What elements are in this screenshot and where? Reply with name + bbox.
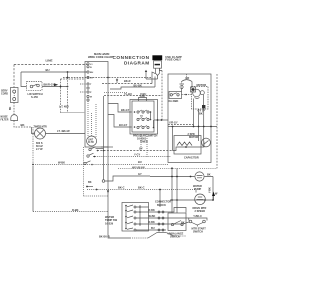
dotted line y189.5 [87,189,196,191]
motor label [197,83,207,87]
wire dotted y212 [33,211,108,213]
svg-text:BU: BU [90,72,94,74]
svg-text:W-BK: W-BK [58,161,65,165]
plug inner dashes [13,93,15,98]
wire LINE dashed y64.5 [14,64,87,66]
junction dot (33,164.5) [32,164,34,166]
wire dashed vertical x14 [13,65,15,88]
svg-text:P: P [90,92,92,94]
pump line jog left [102,180,105,183]
svg-text:GY: GY [138,172,142,176]
wire vertical x67.5 to y77.5 [67,72,69,78]
label BK [21,123,25,127]
wire filter down and right [14,121,32,128]
plug terminal top [13,90,16,93]
inner vertical x103 [103,96,105,180]
box bottom bracket [101,146,113,148]
long line L1 GY y150.5 [97,150,173,152]
wire BK-R y83 [102,83,152,85]
svg-text:BK-C: BK-C [118,186,125,190]
label right of lid switch [44,83,55,87]
riser x172.5 [172,127,174,151]
svg-text:GY: GY [90,78,94,80]
label LT 4BU-W [57,129,70,133]
svg-text:R-BK: R-BK [149,221,155,224]
wires down from motor box [194,99,204,148]
Y/R-GY label [169,122,178,125]
label below motor switch [169,99,179,103]
svg-text:TIMER MTR: TIMER MTR [34,125,48,128]
svg-text:BK-GY: BK-GY [121,108,130,112]
svg-text:FUSE ONLY: FUSE ONLY [165,58,181,62]
label vertical wire [10,106,12,110]
GY labels [198,109,206,116]
riser x160 to dotted line [159,190,161,208]
2 SPD label [188,133,199,139]
dashes switch to motor [182,94,193,96]
wire vertical x67.5 lower [67,78,69,113]
svg-text:BK: BK [199,112,203,116]
fuse F1 element bar [155,64,160,66]
wire y79 to arrow [146,71,158,80]
terminals column x88 [87,63,89,101]
svg-text:T: T [90,84,92,86]
label R-BK on y164.5 [58,161,65,165]
fuse F1 holder box [154,61,162,68]
wire x196 down to motor [195,190,197,193]
svg-text:3A: 3A [140,115,143,118]
wire pump right down [212,177,214,201]
capacitor circle [202,138,211,147]
wire into timer motor [32,127,35,134]
console terminal box [85,62,108,148]
black connector top right [212,192,215,197]
timer motor circle [35,128,46,139]
svg-text:Y-BK-C: Y-BK-C [193,215,202,218]
svg-text:BK-R: BK-R [124,79,131,83]
lid switch terminal R [37,84,40,87]
svg-text:FILTER: FILTER [1,119,9,121]
contact cluster below console box [84,147,109,196]
lint filter text [88,140,94,145]
label left of filter [1,117,9,122]
protector element [177,142,192,146]
long line L4 W/Y-BU/W y169.5 [118,167,217,169]
svg-text:BU: BU [46,68,50,72]
unbalance switch box [168,213,186,231]
motor switch box [169,92,182,99]
power cord plug box [11,88,19,103]
wire vertical x21 [21,72,27,87]
wire Y/R-GY dashed y124.5 [168,124,194,126]
svg-text:YL-BU: YL-BU [124,92,132,96]
svg-text:SWITCH: SWITCH [193,231,203,234]
label above timer motor [34,125,48,128]
label LT 4BU [59,106,69,109]
wire dashed y79 x60-85 [61,78,86,80]
svg-text:NOISE: NOISE [1,117,9,119]
svg-text:GY: GY [139,147,143,151]
row2 W-BK [149,217,189,219]
console switch rows [125,205,148,231]
svg-text:BU-BK: BU-BK [134,83,142,87]
wire long vertical x33 [32,127,34,166]
label BU [46,68,50,72]
pump line right part [150,176,213,178]
timer motor spokes [37,130,44,137]
svg-text:BU: BU [138,160,142,164]
jog to y147 [173,142,205,151]
motor circles [193,89,201,97]
connector arrow A2 [54,83,58,86]
drive motor circle [195,194,206,205]
svg-text:CONNECTION: CONNECTION [113,55,150,60]
svg-text:WIRE CODE CHART: WIRE CODE CHART [88,55,114,59]
svg-text:Y-BK: Y-BK [209,187,212,193]
dashed riser x162 [161,71,163,121]
dotted y238 diagonal and y232.5 [130,237,148,239]
capacitor label [184,157,199,160]
svg-text:BU-GY: BU-GY [119,123,128,127]
timer contacts row2 [137,115,151,121]
wire dashed y77.5 [63,77,152,79]
svg-text:DIAGRAM: DIAGRAM [124,61,150,66]
svg-text:R-BK: R-BK [149,209,155,212]
row3 R-BK lower [149,222,190,224]
timer contacts row3 [134,126,155,129]
svg-text:BK-C: BK-C [138,186,145,190]
label Y-BK vertical [209,187,212,193]
svg-text:LINT: LINT [88,140,94,142]
svg-text:BK-BU-R: BK-BU-R [99,235,110,238]
svg-text:2 SPEED: 2 SPEED [195,210,206,213]
text above unbalance box [155,201,171,207]
label below timer motor [36,142,43,151]
label below timer [133,135,158,144]
svg-text:FLTR: FLTR [88,142,94,144]
svg-text:PUMP: PUMP [194,188,202,191]
wire BU-BK y89 [110,77,155,90]
svg-text:W: W [215,193,218,196]
svg-text:W-BK: W-BK [149,215,156,218]
outer dashed vertical x217 [216,74,218,168]
label left of water temp box [105,215,118,225]
wire jog BU-GY [108,115,132,128]
svg-text:6A 3/BK: 6A 3/BK [169,99,179,103]
label left of plug [1,90,8,96]
svg-text:16-229: 16-229 [105,221,114,225]
stub to box top [186,74,188,78]
label below lid switch [28,92,43,99]
BR label [186,76,190,80]
timer bottom stubs [141,134,147,157]
timer contacts row1 [134,110,152,113]
timer box outer [130,100,158,135]
wire BU solid y72 [21,71,87,73]
svg-text:S-150: S-150 [31,95,38,99]
junction dot (67,72) [67,71,69,73]
svg-text:BK: BK [88,181,92,184]
start switch bracket [193,215,202,218]
svg-text:R-BK: R-BK [72,208,79,212]
connector arrow A1 [145,70,147,72]
noise filter [11,115,18,121]
svg-text:Y/R-GY: Y/R-GY [169,122,178,125]
svg-text:1-BK: 1-BK [140,95,146,98]
start relay blob [203,95,205,105]
svg-text:L.T. 4BU: L.T. 4BU [59,106,69,109]
lid switch box [27,82,43,91]
svg-text:Y-GY: Y-GY [134,153,140,157]
svg-text:BR: BR [186,76,190,80]
capacitor box [174,136,201,155]
wire Y-BU y94 [104,95,162,97]
svg-text:BK: BK [10,106,12,110]
svg-text:BU: BU [151,227,155,230]
title CONNECTION DIAGRAM [113,55,150,66]
lid switch terminal L [30,85,33,88]
wire timer motor right y133 [46,133,86,135]
svg-text:L1: L1 [90,64,93,66]
motor line y200 [170,199,213,201]
plug terminal bottom [13,98,16,101]
start winding loop arc [182,80,193,82]
node LINE label [46,58,53,62]
svg-text:BK: BK [207,174,211,177]
svg-text:2.7 W: 2.7 W [36,148,43,151]
junction dot (60.5,86.5) [60,86,62,88]
timer top stub [139,98,147,102]
fuse label text [165,55,182,62]
wire plug to filter [13,103,15,115]
riser x172 lower / x177 lower [172,168,177,213]
fuse pins wires [156,68,160,79]
wire long vertical x108 lower [108,147,130,238]
junction dot (108,77.5) [107,77,109,79]
terminal stub labels [90,64,94,99]
motor dashed box [192,87,209,110]
wire jog BK-GY [108,104,132,113]
wire from lid switch right [42,86,68,88]
wire vertical x60.5 [60,79,62,113]
svg-text:SWITCH: SWITCH [170,235,180,238]
wire dotted y164.5 left part [33,164,85,166]
svg-text:BK: BK [21,123,25,127]
svg-text:W/Y-BU/W: W/Y-BU/W [132,166,145,170]
svg-text:N: N [90,67,92,69]
stubs into terminals [80,84,87,92]
long line L2 Y-GY y156.5 [93,156,171,158]
long line L3 BU y164 [85,164,168,166]
wire fuse right pin to dashed riser [159,68,162,70]
svg-text:BLOCK: BLOCK [157,204,166,207]
big right box [168,74,211,163]
junction dot (67.5,77.5) [67,77,69,79]
timer exit right y119.5 [154,119,168,121]
svg-text:CAPACITOR: CAPACITOR [184,157,199,160]
connector triangle x108 [107,191,109,194]
svg-text:LT. 4BU-W: LT. 4BU-W [57,129,70,133]
label WIRE CHART above console box [88,52,114,59]
svg-text:LINE: LINE [46,58,53,62]
timer box inner [132,101,154,132]
svg-text:MOTOR: MOTOR [189,136,198,139]
svg-text:BK/R-GY: BK/R-GY [44,83,55,87]
junction line y126.5 [168,126,217,128]
row4 BU [149,229,167,231]
inner dotted verticals [87,101,89,136]
fuse F1 body (black) [152,55,162,60]
lint filter circle [87,136,97,146]
svg-text:M: M [90,97,92,99]
water pump circle [195,172,204,181]
wire dotted y112.5 [61,112,86,114]
svg-text:CORD: CORD [1,93,8,96]
water temp switch box [122,203,149,232]
lid switch blade [33,84,37,86]
timer inner right verticals [151,112,154,128]
row1 R-BK [149,208,187,213]
label R-BK on y212 [72,208,79,212]
capacitor stack [181,82,183,84]
relay dark box [191,82,193,88]
